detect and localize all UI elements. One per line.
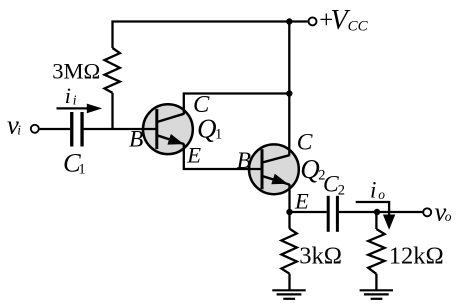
svg-text:3MΩ: 3MΩ	[52, 58, 100, 83]
svg-text:12kΩ: 12kΩ	[389, 242, 444, 269]
svg-text:i: i	[65, 83, 71, 108]
svg-text:o: o	[378, 187, 385, 202]
svg-text:1: 1	[215, 127, 222, 143]
svg-text:3kΩ: 3kΩ	[299, 242, 342, 269]
svg-text:CC: CC	[348, 19, 369, 35]
svg-text:2: 2	[338, 183, 345, 199]
svg-text:Q: Q	[197, 113, 217, 143]
svg-text:E: E	[294, 188, 309, 213]
svg-text:C: C	[323, 172, 339, 198]
svg-text:B: B	[237, 148, 251, 174]
svg-text:E: E	[186, 143, 201, 168]
svg-text:B: B	[129, 127, 143, 153]
svg-text:Q: Q	[300, 154, 320, 184]
svg-text:1: 1	[78, 161, 85, 177]
svg-text:i: i	[17, 123, 21, 138]
svg-text:i: i	[370, 178, 376, 203]
svg-text:i: i	[73, 92, 77, 107]
svg-text:o: o	[445, 209, 452, 224]
svg-text:C: C	[297, 129, 313, 155]
